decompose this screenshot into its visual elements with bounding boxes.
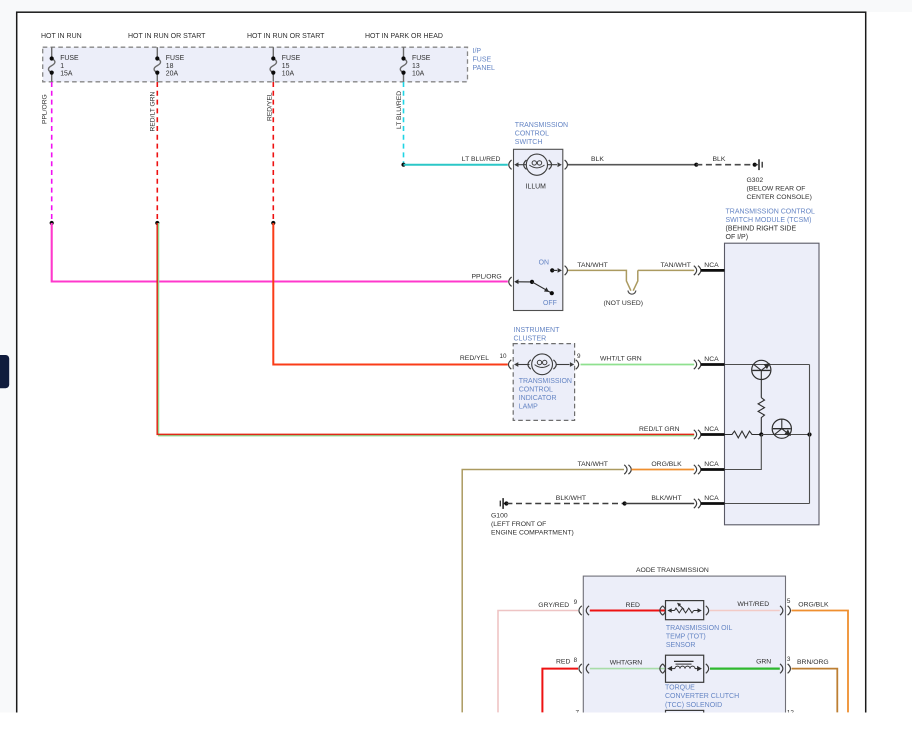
svg-text:RED/LT GRN: RED/LT GRN bbox=[150, 91, 157, 131]
TCSM internal wire row 4 up to node bbox=[725, 435, 762, 470]
instrument cluster label bbox=[514, 327, 561, 343]
svg-text:10A: 10A bbox=[282, 71, 295, 78]
svg-text:18: 18 bbox=[166, 63, 174, 70]
TCC solenoid label bbox=[665, 685, 739, 709]
TOT thermistor symbol bbox=[667, 603, 701, 613]
wire: WHT/GRN to TCC solenoid bbox=[590, 668, 666, 670]
connector at AODE pin 9 bbox=[579, 606, 589, 615]
transmission control indicator lamp label bbox=[519, 378, 572, 411]
svg-text:15: 15 bbox=[282, 63, 290, 70]
NCA stub (TAN/WHT) bbox=[701, 269, 725, 272]
fuse 13 value label bbox=[412, 55, 431, 78]
svg-text:BLK/WHT: BLK/WHT bbox=[651, 495, 681, 502]
wire: RED/LT GRN solid run to TCSM (green tracer) bbox=[157, 223, 694, 436]
svg-text:TRANSMISSION: TRANSMISSION bbox=[519, 378, 572, 385]
svg-text:HOT IN RUN OR START: HOT IN RUN OR START bbox=[247, 33, 325, 40]
label GRY/RED bbox=[538, 602, 569, 609]
svg-text:ORG/BLK: ORG/BLK bbox=[651, 461, 682, 468]
connector at AODE pin 8 bbox=[579, 664, 589, 673]
illum output arrow bbox=[548, 162, 562, 167]
svg-text:TAN/WHT: TAN/WHT bbox=[661, 262, 691, 269]
ground G100 symbol bbox=[500, 498, 506, 509]
svg-text:ON: ON bbox=[539, 260, 549, 267]
TCSM input connector (ORG/BLK) bbox=[694, 465, 701, 474]
ground G100 label bbox=[491, 513, 574, 537]
svg-text:ORG/BLK: ORG/BLK bbox=[798, 602, 829, 609]
svg-text:TRANSMISSION: TRANSMISSION bbox=[515, 122, 568, 129]
wire: BLK from switch to splice bbox=[568, 164, 696, 166]
partial third solenoid box (clipped) bbox=[666, 710, 704, 718]
feed label: HOT IN RUN OR START (fuse 15) bbox=[247, 33, 325, 40]
svg-text:WHT/GRN: WHT/GRN bbox=[610, 660, 643, 667]
TCSM internal wire row 2 bbox=[725, 364, 810, 366]
wire: WHT/RED from TOT sensor bbox=[710, 610, 780, 612]
svg-text:CLUSTER: CLUSTER bbox=[514, 336, 547, 343]
svg-text:FUSE: FUSE bbox=[473, 57, 492, 64]
svg-text:I/P: I/P bbox=[473, 48, 482, 55]
junction dot BLK/WHT splice bbox=[623, 501, 627, 505]
illum input arrow bbox=[514, 162, 526, 167]
svg-text:SWITCH: SWITCH bbox=[515, 139, 543, 146]
switch common input arrow bbox=[514, 279, 532, 284]
svg-text:TEMP (TOT): TEMP (TOT) bbox=[666, 634, 706, 641]
connector at switch ON output (outside) bbox=[565, 266, 568, 275]
svg-text:PPL/ORG: PPL/ORG bbox=[472, 273, 502, 280]
TCSM module label bbox=[726, 209, 816, 242]
fuse 13 top junction dot bbox=[401, 56, 405, 60]
fuse 13 10A bbox=[400, 47, 406, 82]
fuse 13 bottom junction dot bbox=[401, 71, 405, 75]
svg-text:NCA: NCA bbox=[704, 356, 719, 363]
label WHT/LT GRN bbox=[600, 356, 642, 363]
fuse 1 value label bbox=[60, 55, 79, 78]
svg-text:TAN/WHT: TAN/WHT bbox=[578, 461, 608, 468]
svg-text:SWITCH MODULE (TCSM): SWITCH MODULE (TCSM) bbox=[726, 217, 812, 224]
svg-text:INSTRUMENT: INSTRUMENT bbox=[514, 327, 561, 334]
svg-text:RED: RED bbox=[626, 602, 640, 609]
junction dot at G100 bbox=[504, 501, 508, 505]
wire: GRN from TCC solenoid bbox=[710, 667, 780, 669]
AODE pin 8 bbox=[574, 657, 578, 664]
inline connector TAN/WHT to ORG/BLK bbox=[624, 465, 631, 474]
torque converter clutch TCC solenoid box bbox=[666, 655, 704, 682]
svg-text:G302: G302 bbox=[747, 177, 764, 184]
TOT sensor connector arcs left bbox=[660, 606, 666, 615]
label ON bbox=[539, 260, 549, 267]
TOT sensor right connector bbox=[706, 606, 709, 615]
wire: PPL/ORG dashed drop from fuse 1 bbox=[51, 82, 53, 223]
wire: RED/YEL dashed drop from fuse 15 bbox=[272, 82, 274, 223]
wire: TAN/WHT from switch bbox=[568, 270, 694, 290]
TCSM input connector (RED/LT GRN) bbox=[694, 430, 701, 439]
connector arc left of cluster lamp bbox=[528, 360, 531, 369]
label PPL/ORG bbox=[472, 273, 502, 280]
illumination lamp ILLUM bbox=[526, 154, 547, 175]
wire: BLK dashed to ground G302 bbox=[696, 164, 754, 166]
TCSM right rail bbox=[809, 365, 811, 504]
svg-text:1: 1 bbox=[60, 63, 64, 70]
vertical wire label LT BLU/RED bbox=[396, 91, 403, 129]
transmission control indicator lamp bbox=[532, 354, 553, 375]
AODE pin 5 bbox=[787, 598, 791, 605]
svg-text:LT BLU/RED: LT BLU/RED bbox=[462, 156, 501, 163]
ON output arrow bbox=[552, 268, 562, 273]
connector at cluster pin 10 (outside) bbox=[508, 360, 511, 369]
wire: RED from bottom to AODE pin 8 bbox=[542, 669, 578, 713]
svg-text:NCA: NCA bbox=[704, 426, 719, 433]
svg-text:HOT IN RUN: HOT IN RUN bbox=[41, 33, 82, 40]
wire: TAN/WHT lower run bbox=[462, 470, 624, 713]
TCSM internal wire row 5 to right rail bbox=[725, 503, 810, 505]
switch ON terminal dot bbox=[550, 268, 554, 272]
wire: BLK/WHT solid to TCSM bbox=[625, 503, 695, 505]
fuse 18 top junction dot bbox=[155, 56, 159, 60]
TCC solenoid connector arcs left bbox=[660, 664, 666, 673]
switch blade to OFF bbox=[532, 282, 552, 293]
fuse 18 bottom junction dot bbox=[155, 71, 159, 75]
svg-text:ENGINE COMPARTMENT): ENGINE COMPARTMENT) bbox=[491, 530, 574, 537]
junction dot BLK splice bbox=[694, 163, 698, 167]
TCSM input connector (WHT/LT GRN) bbox=[694, 360, 701, 369]
junction dot PPL/ORG splice bbox=[50, 221, 54, 225]
AODE pin 3 bbox=[787, 656, 791, 663]
connector at AODE pin 3 bbox=[780, 664, 790, 673]
svg-text:(LEFT FRONT OF: (LEFT FRONT OF bbox=[491, 521, 546, 528]
svg-text:LAMP: LAMP bbox=[519, 404, 538, 411]
junction dot RED/LT GRN splice bbox=[155, 221, 159, 225]
transmission oil temp TOT sensor box bbox=[666, 601, 704, 620]
NCA stub (RED/LT GRN) bbox=[701, 433, 725, 436]
NCA stub (ORG/BLK) bbox=[701, 468, 725, 471]
wire: GRY/RED from bottom to AODE pin 9 bbox=[498, 611, 578, 713]
connector at switch illum input (outside) bbox=[509, 160, 512, 169]
svg-text:AODE TRANSMISSION: AODE TRANSMISSION bbox=[636, 567, 709, 574]
ground G302 label bbox=[747, 177, 812, 201]
feed label: HOT IN RUN OR START (fuse 18) bbox=[128, 33, 206, 40]
AODE transmission label bbox=[636, 567, 709, 574]
ILLUM label bbox=[526, 184, 547, 191]
svg-text:RED: RED bbox=[556, 658, 570, 665]
label BLK/WHT 1 bbox=[556, 495, 586, 502]
svg-text:FUSE: FUSE bbox=[282, 55, 301, 62]
transistor Q2 bbox=[772, 419, 791, 438]
svg-text:BRN/ORG: BRN/ORG bbox=[797, 659, 829, 666]
wire: RED/YEL solid to instrument cluster pin 10 bbox=[273, 223, 508, 365]
TCSM module box bbox=[725, 243, 820, 525]
svg-text:TORQUE: TORQUE bbox=[665, 685, 695, 692]
label NCA (BLK/WHT) bbox=[704, 495, 719, 502]
connector arc left of lamp bbox=[524, 160, 527, 169]
TCC solenoid coil symbol bbox=[667, 661, 702, 671]
svg-text:PANEL: PANEL bbox=[473, 65, 496, 72]
node junction dot (base node) bbox=[759, 432, 763, 436]
wire: BRN/ORG from pin 3 to bottom bbox=[792, 669, 838, 713]
AODE pin 7 (clipped) bbox=[576, 710, 580, 717]
svg-text:CONVERTER CLUTCH: CONVERTER CLUTCH bbox=[665, 693, 739, 700]
label RED/LT GRN at module bbox=[639, 426, 680, 433]
svg-text:GRY/RED: GRY/RED bbox=[538, 602, 569, 609]
svg-text:OFF: OFF bbox=[543, 300, 557, 307]
NCA stub (BLK/WHT) bbox=[701, 502, 725, 505]
fuse 15 bottom junction dot bbox=[271, 71, 275, 75]
label BRN/ORG bbox=[797, 659, 829, 666]
svg-text:FUSE: FUSE bbox=[60, 55, 79, 62]
switch OFF terminal dot bbox=[550, 291, 554, 295]
label WHT/RED bbox=[737, 601, 769, 608]
cluster input arrow bbox=[514, 362, 530, 367]
switch common pole dot bbox=[530, 280, 534, 284]
transmission control switch box bbox=[514, 149, 563, 310]
label BLK/WHT 2 bbox=[651, 495, 681, 502]
svg-text:(TCC) SOLENOID: (TCC) SOLENOID bbox=[665, 702, 722, 709]
svg-text:RED/YEL: RED/YEL bbox=[460, 355, 489, 362]
label ORG/BLK bbox=[651, 461, 682, 468]
wire: LT BLU/RED solid to switch illumination bbox=[404, 164, 508, 166]
ground G302 symbol bbox=[755, 159, 763, 170]
svg-text:TRANSMISSION OIL: TRANSMISSION OIL bbox=[666, 625, 733, 632]
cluster pin 10 bbox=[500, 353, 508, 360]
fuse 18 value label bbox=[166, 55, 185, 78]
svg-text:G100: G100 bbox=[491, 513, 508, 520]
svg-text:10: 10 bbox=[500, 353, 508, 360]
resistor R2 (horizontal, RED/LT GRN input) bbox=[725, 431, 762, 438]
svg-text:BLK: BLK bbox=[713, 156, 726, 163]
wire: WHT/LT GRN cluster to TCSM bbox=[581, 364, 695, 366]
label NCA (WHT/LT GRN) bbox=[704, 356, 719, 363]
I/P fuse panel label bbox=[473, 48, 496, 72]
instrument cluster box bbox=[513, 344, 574, 421]
label NCA (TAN/WHT) bbox=[704, 262, 719, 269]
svg-text:ILLUM: ILLUM bbox=[526, 184, 547, 191]
junction dot right rail bbox=[807, 432, 811, 436]
svg-text:CONTROL: CONTROL bbox=[515, 131, 549, 138]
TCSM input connector (TAN/WHT) bbox=[694, 266, 701, 275]
svg-text:GRN: GRN bbox=[756, 658, 771, 665]
connector at AODE pin 5 bbox=[780, 606, 790, 615]
svg-text:5: 5 bbox=[787, 598, 791, 605]
junction dot at G302 bbox=[753, 163, 757, 167]
svg-text:WHT/LT GRN: WHT/LT GRN bbox=[600, 356, 642, 363]
label RED (TCC) bbox=[556, 658, 570, 665]
AODE transmission box bbox=[583, 576, 785, 752]
connector at switch illum output (outside) bbox=[565, 160, 568, 169]
fuse 15 top junction dot bbox=[271, 56, 275, 60]
svg-text:LT BLU/RED: LT BLU/RED bbox=[396, 91, 403, 129]
svg-text:CONTROL: CONTROL bbox=[519, 387, 553, 394]
label TAN/WHT 2 bbox=[661, 262, 691, 269]
fuse 15 10A bbox=[270, 47, 276, 82]
svg-text:15A: 15A bbox=[60, 71, 73, 78]
label TAN/WHT lower bbox=[578, 461, 608, 468]
navy scroll tab bbox=[0, 355, 9, 388]
feed label: HOT IN PARK OR HEAD (fuse 13) bbox=[365, 33, 443, 40]
svg-text:HOT IN RUN OR START: HOT IN RUN OR START bbox=[128, 33, 206, 40]
not used terminal arc bbox=[628, 291, 636, 295]
transistor Q1 bbox=[752, 360, 771, 397]
svg-text:WHT/RED: WHT/RED bbox=[737, 601, 769, 608]
fuse 1 bottom junction dot bbox=[50, 71, 54, 75]
svg-text:FUSE: FUSE bbox=[412, 55, 431, 62]
connector at cluster pin 9 (outside) bbox=[576, 360, 579, 369]
svg-text:TAN/WHT: TAN/WHT bbox=[577, 262, 607, 269]
svg-text:BLK/WHT: BLK/WHT bbox=[556, 495, 586, 502]
bottom page strip bbox=[0, 713, 912, 752]
wire: BLK/WHT dashed from G100 bbox=[506, 503, 624, 505]
junction dot RED/YEL splice bbox=[271, 221, 275, 225]
connector arc right of lamp bbox=[549, 160, 552, 169]
TCSM input connector (BLK/WHT) bbox=[694, 499, 701, 508]
svg-text:SENSOR: SENSOR bbox=[666, 642, 696, 649]
AODE pin 9 bbox=[574, 599, 578, 606]
svg-text:(NOT USED): (NOT USED) bbox=[604, 300, 644, 307]
label BLK 1 bbox=[591, 156, 604, 163]
label WHT/GRN bbox=[610, 660, 643, 667]
svg-text:NCA: NCA bbox=[704, 262, 719, 269]
vertical wire label RED/LT GRN bbox=[150, 91, 157, 131]
transmission control switch label bbox=[515, 122, 568, 146]
wire: RED to TOT sensor bbox=[590, 610, 666, 612]
label BLK 2 bbox=[713, 156, 726, 163]
label (NOT USED) bbox=[604, 300, 644, 307]
label TAN/WHT 1 bbox=[577, 262, 607, 269]
NCA stub (WHT/LT GRN) bbox=[701, 363, 725, 366]
svg-text:3: 3 bbox=[787, 656, 791, 663]
svg-text:13: 13 bbox=[412, 63, 420, 70]
label OFF bbox=[543, 300, 557, 307]
svg-text:9: 9 bbox=[577, 353, 581, 360]
svg-text:RED/YEL: RED/YEL bbox=[267, 92, 274, 121]
svg-text:(BEHIND RIGHT SIDE: (BEHIND RIGHT SIDE bbox=[726, 226, 797, 233]
wire: RED/LT GRN dashed drop from fuse 18 bbox=[156, 82, 158, 223]
svg-text:RED/LT GRN: RED/LT GRN bbox=[639, 426, 680, 433]
cluster output arrow bbox=[556, 362, 574, 367]
I/P fuse panel box bbox=[43, 47, 468, 82]
svg-text:8: 8 bbox=[574, 657, 578, 664]
svg-text:PPL/ORG: PPL/ORG bbox=[41, 94, 48, 124]
fuse 18 20A bbox=[154, 47, 160, 82]
svg-text:FUSE: FUSE bbox=[166, 55, 185, 62]
label LT BLU/RED bbox=[462, 156, 501, 163]
svg-text:BLK: BLK bbox=[591, 156, 604, 163]
vertical wire label PPL/ORG bbox=[41, 94, 48, 124]
svg-text:NCA: NCA bbox=[704, 461, 719, 468]
label GRN bbox=[756, 658, 771, 665]
svg-text:10A: 10A bbox=[412, 71, 425, 78]
label RED/YEL bbox=[460, 355, 489, 362]
TCC solenoid right connector bbox=[706, 664, 709, 673]
svg-text:9: 9 bbox=[574, 599, 578, 606]
TOT sensor label bbox=[666, 625, 733, 649]
vertical wire label RED/YEL bbox=[267, 92, 274, 121]
connector arc right of cluster lamp bbox=[553, 360, 556, 369]
svg-text:NCA: NCA bbox=[704, 495, 719, 502]
connector at switch common input (outside) bbox=[509, 277, 512, 286]
svg-text:(BELOW REAR OF: (BELOW REAR OF bbox=[747, 186, 806, 193]
svg-text:TRANSMISSION CONTROL: TRANSMISSION CONTROL bbox=[726, 209, 816, 216]
svg-text:INDICATOR: INDICATOR bbox=[519, 395, 557, 402]
AODE pin 12 (clipped) bbox=[787, 710, 795, 717]
svg-text:20A: 20A bbox=[166, 71, 179, 78]
label NCA (ORG/BLK) bbox=[704, 461, 719, 468]
TCSM internal wire node to Q2 bbox=[761, 434, 809, 436]
resistor R1 (vertical) bbox=[758, 398, 764, 435]
fuse 15 value label bbox=[282, 55, 301, 78]
wire: ORG/BLK from pin 5 to bottom bbox=[792, 611, 849, 713]
wire: LT BLU/RED dashed drop from fuse 13 bbox=[403, 82, 405, 165]
fuse 1 top junction dot bbox=[50, 56, 54, 60]
label NCA (RED/LT GRN) bbox=[704, 426, 719, 433]
svg-text:HOT IN PARK OR HEAD: HOT IN PARK OR HEAD bbox=[365, 33, 443, 40]
cluster pin 9 bbox=[577, 353, 581, 360]
fuse 1 15A bbox=[48, 47, 54, 82]
feed label: HOT IN RUN (fuse 1) bbox=[41, 33, 82, 40]
svg-text:OF I/P): OF I/P) bbox=[726, 234, 749, 241]
label RED (TOT) bbox=[626, 602, 640, 609]
junction dot LT BLU/RED splice bbox=[401, 163, 405, 167]
label ORG/BLK right bbox=[798, 602, 829, 609]
wire: PPL/ORG solid to transmission control switch bbox=[52, 223, 508, 282]
svg-text:CENTER CONSOLE): CENTER CONSOLE) bbox=[747, 194, 812, 201]
wire: ORG/BLK to TCSM bbox=[631, 469, 694, 471]
